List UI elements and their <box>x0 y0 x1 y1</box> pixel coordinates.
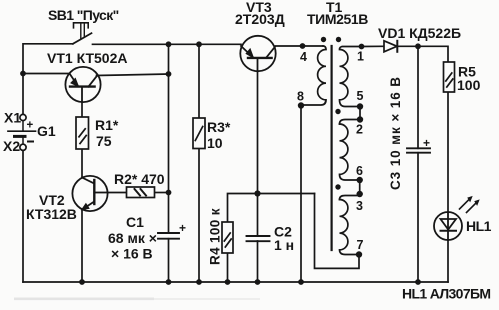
node VT1 collector / C1 column <box>166 71 172 77</box>
node rail R4 <box>225 279 231 285</box>
wire rail left riser to X2 <box>22 150 24 282</box>
svg-text:2: 2 <box>356 123 363 137</box>
node top rail / C1 column <box>166 41 172 47</box>
wire VT3 base down to node <box>257 71 259 236</box>
battery G1 <box>8 121 36 145</box>
resistor R3 <box>193 118 205 149</box>
svg-text:1 н: 1 н <box>274 237 294 253</box>
node rail C2 <box>255 279 261 285</box>
svg-text:× 16 В: × 16 В <box>111 246 153 262</box>
pin 6 terminal <box>357 177 363 183</box>
node rail C3 <box>415 279 421 285</box>
capacitor C3 <box>407 148 430 152</box>
svg-text:HL1 АЛ307БМ: HL1 АЛ307БМ <box>402 286 490 302</box>
node top rail / R3 column <box>196 41 202 47</box>
wire VT1 collector to node column <box>97 74 169 76</box>
svg-text:X2: X2 <box>3 138 20 154</box>
svg-text:10: 10 <box>207 135 223 151</box>
wire VT1 emitter feed (battery tap to VT1) <box>23 73 70 75</box>
label minus <box>27 141 34 143</box>
wire R4 bottom to rail <box>227 253 229 282</box>
resistor R1 <box>76 117 89 149</box>
LED HL1 <box>434 197 479 240</box>
svg-text:5: 5 <box>357 89 364 103</box>
svg-text:HL1: HL1 <box>466 218 492 234</box>
wire column C1 (top rail down through C1 to bottom rail) <box>168 44 170 233</box>
transformer link pin6-pin3 <box>340 180 360 200</box>
svg-text:+: + <box>179 221 186 235</box>
wire C3 column <box>417 46 419 148</box>
node VT3 base / R4 / pin7 row <box>254 190 260 196</box>
pin 4 terminal <box>300 43 306 49</box>
svg-text:8: 8 <box>297 90 304 104</box>
svg-text:R4 100 к: R4 100 к <box>208 208 223 265</box>
pin 8 terminal <box>298 102 304 108</box>
wire VT2 emitter to bottom rail <box>81 210 83 283</box>
svg-text:2Т203Д: 2Т203Д <box>235 11 285 27</box>
pin 3 terminal <box>357 191 363 197</box>
wire R5 bottom to HL1 top <box>447 92 449 212</box>
svg-text:+: + <box>27 120 34 132</box>
node rail R3 <box>196 279 202 285</box>
resistor R2 <box>127 187 155 198</box>
svg-text:1: 1 <box>357 50 364 64</box>
capacitor C1 <box>158 233 179 239</box>
svg-text:3: 3 <box>356 199 363 213</box>
wire R3 column (top rail through R3 to bottom rail) <box>198 44 200 118</box>
wire pin8 down to bottom rail <box>300 106 302 283</box>
svg-text:6: 6 <box>356 164 363 178</box>
pushbutton SB1 <box>73 23 92 44</box>
svg-text:68 мк ×: 68 мк × <box>108 230 157 246</box>
transformer T1 primary winding (pins 4-8) <box>301 46 326 105</box>
pin 5 terminal <box>357 103 363 109</box>
svg-text:VD1 КД522Б: VD1 КД522Б <box>378 25 461 41</box>
wire pin7 loop (node row down, right, up to pin 7) <box>315 194 360 269</box>
transistor VT1 <box>65 67 100 102</box>
svg-text:X1: X1 <box>4 110 21 126</box>
phasing dot winding II <box>335 109 340 114</box>
svg-text:R1*: R1* <box>95 117 119 133</box>
wire top rail right (VT3 to transformer pin 4 and winding) <box>276 45 324 47</box>
scan artifact streak <box>14 298 260 301</box>
pin 2 terminal <box>357 116 363 122</box>
phasing dot winding I <box>336 37 341 42</box>
transistor VT3 <box>240 36 275 72</box>
svg-text:100: 100 <box>457 77 481 93</box>
diode VD1 <box>384 41 397 52</box>
wire diode row: pin1 to diode, diode to C3 node, node to R5 corner <box>362 45 385 47</box>
svg-text:С3 10 мк × 16 В: С3 10 мк × 16 В <box>388 76 403 190</box>
transformer link pin5-pin2 <box>340 107 361 125</box>
terminal X2 <box>20 144 26 150</box>
wire VT1 base to R1 <box>81 102 83 118</box>
svg-text:+: + <box>423 136 430 150</box>
svg-text:КТ312В: КТ312В <box>26 206 77 222</box>
svg-text:7: 7 <box>357 238 364 252</box>
transformer T1 winding II (pins 2-6) <box>340 124 360 180</box>
transformer T1 core <box>331 46 333 250</box>
phasing dot winding III <box>335 184 340 189</box>
svg-text:VT1 КТ502А: VT1 КТ502А <box>47 50 127 66</box>
wire node row: R4 corner to pin7 riser corner <box>228 194 315 223</box>
resistor R5 <box>444 62 455 92</box>
svg-text:ТИМ251В: ТИМ251В <box>307 11 368 27</box>
capacitor C2 <box>247 236 270 241</box>
svg-text:G1: G1 <box>37 123 56 139</box>
wire R2 to C1 column <box>155 192 169 194</box>
node battery/emitter tap <box>20 71 26 77</box>
wire HL1 bottom to rail <box>447 240 449 282</box>
wire top rail middle (button to VT3) <box>93 43 242 45</box>
transformer T1 winding III (pins 3-7) <box>340 200 360 255</box>
pin 7 terminal <box>356 251 362 257</box>
wire bottom rail <box>23 281 448 283</box>
node R2 / C1 column <box>166 190 172 196</box>
pin number labels <box>297 50 364 253</box>
wire top rail left from battery corner to pushbutton <box>23 44 73 120</box>
wire R1 to VT2 collector <box>81 149 83 178</box>
svg-text:4: 4 <box>300 50 307 64</box>
wire VT2 base to R2 <box>107 192 126 194</box>
node rail VT2 emitter <box>79 279 85 285</box>
svg-text:R2* 470: R2* 470 <box>114 171 165 187</box>
node rail pin8 <box>298 279 304 285</box>
transistor VT2 <box>72 176 107 211</box>
node rail C1 <box>166 279 172 285</box>
terminal X1 <box>20 114 26 120</box>
svg-text:С1: С1 <box>126 214 144 230</box>
svg-text:R3*: R3* <box>207 119 231 135</box>
svg-text:SB1 "Пуск": SB1 "Пуск" <box>48 7 119 23</box>
node VD1 cathode / C3 top <box>415 43 421 49</box>
transformer T1 winding I (pins 1-5) <box>340 47 362 107</box>
phasing dot primary <box>321 37 326 42</box>
pin 1 terminal <box>359 44 365 50</box>
svg-text:75: 75 <box>96 133 112 149</box>
wire C2 bottom to rail <box>257 241 259 282</box>
resistor R4 <box>222 222 233 253</box>
